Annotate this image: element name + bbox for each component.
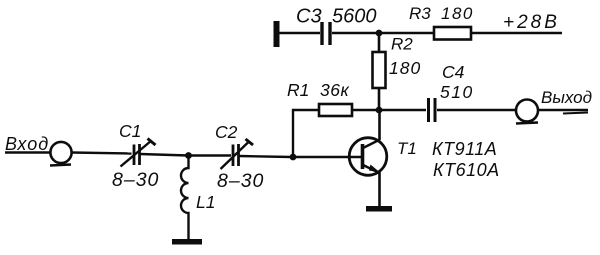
node B junction base node	[290, 154, 297, 161]
wire collector to node C	[378, 110, 381, 140]
wire node B to base	[295, 156, 361, 158]
resistor R1	[319, 104, 352, 116]
svg-text:R3: R3	[409, 4, 431, 23]
ground emitter	[366, 206, 392, 212]
node D junction top	[376, 30, 383, 37]
connector output socket	[516, 100, 538, 124]
wire input lead	[5, 151, 51, 153]
wire node D to R3	[379, 32, 434, 34]
svg-text:КТ911А: КТ911А	[432, 139, 497, 159]
svg-text:36к: 36к	[320, 80, 349, 100]
ground L1	[172, 239, 202, 245]
svg-text:180: 180	[441, 4, 474, 23]
wire C4 to output connector	[437, 109, 516, 111]
capacitor C1 trimmer	[121, 139, 156, 167]
svg-text:Выход: Выход	[541, 88, 592, 107]
svg-text:5600: 5600	[332, 6, 377, 28]
svg-text:R1: R1	[287, 80, 309, 100]
capacitor C3	[322, 22, 330, 45]
wire node A to C2	[190, 154, 231, 156]
capacitor C2 trimmer	[221, 139, 254, 169]
wire C1 to node A	[140, 154, 188, 156]
wire R2 to node C	[378, 88, 381, 110]
wire emitter to ground	[378, 172, 381, 207]
svg-text:+28В: +28В	[503, 12, 560, 33]
svg-text:T1: T1	[397, 139, 417, 158]
transistor T1	[349, 138, 387, 176]
svg-text:C1: C1	[119, 121, 141, 141]
node C junction collector	[376, 107, 383, 114]
svg-text:C2: C2	[215, 122, 238, 142]
wire C3 to node D	[332, 32, 379, 34]
wire node B up to R1	[293, 110, 319, 157]
wire output lead	[538, 109, 588, 111]
wire node D down to R2	[378, 33, 381, 52]
svg-text:C4: C4	[442, 62, 465, 82]
svg-text:КТ610А: КТ610А	[433, 160, 500, 180]
svg-text:510: 510	[440, 82, 474, 102]
wire connector to C1	[72, 153, 132, 154]
connector input socket	[50, 142, 72, 166]
svg-text:L1: L1	[196, 192, 215, 212]
wire R1 to node C	[352, 109, 379, 111]
resistor R3	[434, 27, 471, 40]
svg-text:C3: C3	[296, 6, 322, 28]
svg-text:180: 180	[389, 58, 421, 78]
svg-text:8–30: 8–30	[217, 170, 264, 192]
wire C2 to node B	[239, 156, 291, 157]
svg-text:Вход: Вход	[5, 134, 49, 154]
wire end tick	[563, 113, 588, 114]
inductor L1	[181, 156, 188, 240]
chassis ground bar top left	[274, 21, 280, 47]
wire bar to C3	[279, 32, 320, 34]
svg-text:8–30: 8–30	[112, 169, 159, 191]
wire R3 to +28V	[471, 32, 562, 34]
capacitor C4	[429, 98, 436, 122]
resistor R2	[373, 52, 386, 88]
node A junction	[185, 152, 192, 159]
wire node C to C4	[379, 109, 426, 111]
svg-text:R2: R2	[391, 35, 413, 54]
